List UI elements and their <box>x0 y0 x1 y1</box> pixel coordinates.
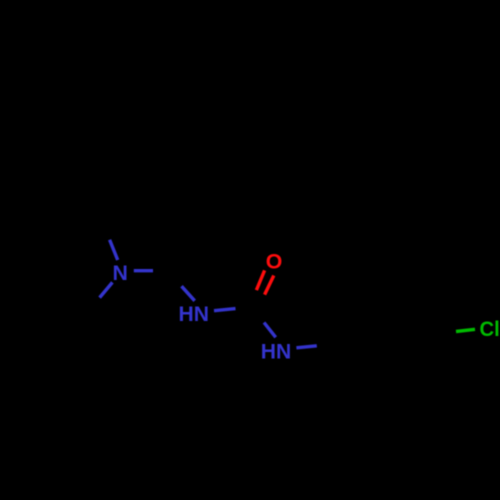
wire bond CH2 to N2 diagonal (blue half) <box>182 286 195 301</box>
svg-text:O: O <box>266 250 283 274</box>
wire bond N1 lower-left ethyl (blue half) <box>100 282 113 297</box>
wire bond N3 to phenyl C1 (blue half) <box>296 346 316 348</box>
wire C=O double bond line 1 (red half) <box>256 270 264 290</box>
wire bond N1 upper ethyl (blue half) <box>110 240 118 260</box>
svg-text:HN: HN <box>261 339 292 363</box>
wire bond N1 right to CH2 (blue half) <box>134 269 153 272</box>
wire bond phenyl C4 to Cl (green half) <box>456 329 475 331</box>
wire bond carbonyl C to N3 diagonal (blue half) <box>264 323 276 338</box>
svg-text:Cl: Cl <box>480 317 500 341</box>
svg-text:N: N <box>113 261 128 285</box>
wire bond N2 to carbonyl C (blue half) <box>214 309 236 311</box>
wire C=O double bond line 2 (red half) <box>265 276 274 295</box>
svg-text:HN: HN <box>179 302 210 326</box>
